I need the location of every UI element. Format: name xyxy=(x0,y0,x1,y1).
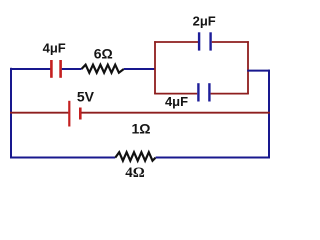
wire: top left segment to capacitor xyxy=(10,68,51,70)
wire: parallel block top edge right part xyxy=(212,41,249,43)
wire: middle branch right of battery xyxy=(81,112,270,114)
svg-text:4μF: 4μF xyxy=(165,94,188,109)
wire: left vertical bus xyxy=(10,68,12,159)
wire: parallel block right edge xyxy=(247,41,249,94)
wire: middle branch left of battery xyxy=(10,112,68,114)
wire: right vertical bus xyxy=(268,70,270,159)
wire: bottom right segment xyxy=(156,157,270,159)
wire: block output to right bus xyxy=(247,70,270,72)
svg-text:4μF: 4μF xyxy=(43,40,66,55)
capacitor C1 4uF (top left) xyxy=(51,60,60,78)
svg-text:1Ω: 1Ω xyxy=(131,121,150,137)
resistor 6 ohm xyxy=(82,65,124,73)
wire: parallel block bottom edge right part xyxy=(211,93,249,95)
wire: bottom left segment xyxy=(10,157,115,159)
wire: between capacitor and resistor xyxy=(62,68,82,70)
wire: parallel block bottom edge left part xyxy=(154,93,197,95)
capacitor C2 2uF (top branch) xyxy=(199,32,211,50)
wire: parallel block left edge xyxy=(154,41,156,94)
wire: resistor to parallel block xyxy=(124,68,156,70)
capacitor C3 4uF (bottom branch) xyxy=(198,83,209,101)
svg-text:4Ω: 4Ω xyxy=(125,165,145,181)
svg-text:2μF: 2μF xyxy=(193,13,216,28)
resistor 4 ohm xyxy=(115,152,155,161)
battery V1 5V xyxy=(69,101,80,127)
svg-text:5V: 5V xyxy=(77,89,95,105)
wire: parallel block top edge left part xyxy=(154,41,198,43)
svg-text:6Ω: 6Ω xyxy=(94,46,113,62)
